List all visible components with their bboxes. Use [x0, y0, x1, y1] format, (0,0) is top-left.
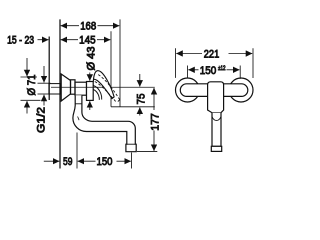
svg-text:221: 221: [204, 49, 220, 61]
svg-text:15 - 23: 15 - 23: [7, 35, 34, 47]
dimension 168: [61, 25, 120, 27]
dimension 59 extension line (spout axis): [76, 133, 78, 169]
cartridge block front: [208, 82, 224, 113]
dimension 75: [139, 74, 141, 116]
aerator foot front: [211, 146, 221, 151]
dimension 177: [153, 88, 155, 151]
axis center line: [51, 86, 155, 88]
svg-text:150: 150: [200, 65, 217, 77]
dimension 150±12: [188, 69, 239, 71]
dimension 221 extension lines: [175, 48, 177, 78]
svg-text:±12: ±12: [218, 65, 226, 72]
left escutcheon circle: [176, 78, 200, 102]
dimension 150±12 extension lines: [187, 66, 189, 79]
dimension 59: [44, 160, 60, 162]
dimension Ø 71: [21, 58, 41, 114]
wire: finished wall line: [59, 19, 61, 168]
wire: rough wall line: [48, 37, 50, 101]
spout aerator collar line: [127, 143, 136, 145]
svg-text:59: 59: [63, 156, 73, 168]
dimension 177 bottom extension line: [137, 151, 157, 153]
right escutcheon circle: [229, 78, 253, 102]
svg-text:Ø 43: Ø 43: [86, 47, 98, 71]
svg-text:G1/2: G1/2: [36, 107, 48, 133]
spout front bend arc: [212, 117, 221, 121]
lever handle (open position, dashed): [95, 75, 120, 103]
lever pivot dome arcs: [93, 86, 101, 100]
dimension 75 extension line: [111, 106, 155, 108]
body ring: [71, 80, 76, 94]
dimension 150: [78, 160, 131, 162]
svg-text:168: 168: [80, 21, 96, 33]
pipe union G1/2: [49, 84, 61, 94]
svg-text:150: 150: [97, 156, 113, 168]
lever handle (closed, solid): [93, 71, 114, 99]
dimension 145 extension line: [110, 31, 112, 107]
dimension 168 extension line: [119, 19, 121, 106]
dimension 221: [176, 53, 252, 55]
spout front tube: [212, 113, 221, 147]
svg-text:75: 75: [136, 94, 148, 105]
dimension G1/2: [38, 66, 51, 106]
escutcheon (side view): [61, 74, 70, 101]
spout: [73, 95, 136, 152]
svg-text:177: 177: [150, 113, 162, 131]
body bar: [180, 84, 248, 97]
svg-text:145: 145: [79, 35, 96, 47]
svg-text:Ø 71: Ø 71: [26, 75, 38, 96]
spout flare crease: [78, 117, 80, 121]
cartridge housing Ø43: [87, 82, 94, 101]
spout joint line: [75, 103, 82, 105]
dimension 145: [61, 39, 111, 41]
body arm: [75, 82, 87, 95]
dimension 150 extension line (outlet axis): [131, 153, 133, 169]
